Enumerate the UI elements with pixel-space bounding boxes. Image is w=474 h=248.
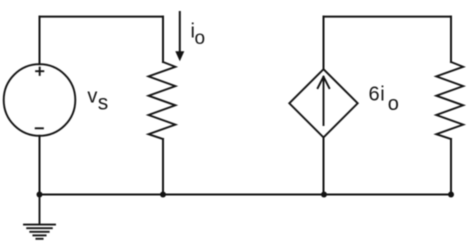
resistor R1 (left) (149, 62, 176, 139)
wire diamond branch top (323, 17, 325, 70)
current arrow io (179, 12, 181, 52)
ground (24, 195, 55, 239)
wire resistor R2 bottom to rail (450, 139, 452, 195)
node B junction dot (160, 192, 166, 198)
svg-text:o: o (388, 93, 399, 115)
resistor R2 (right) (436, 62, 463, 139)
svg-text:o: o (195, 28, 206, 49)
wire bottom rail (40, 194, 452, 196)
svg-text:6: 6 (369, 84, 380, 106)
dependent current source 6io (289, 69, 357, 137)
node C junction dot (321, 192, 327, 198)
wire top rail right loop (324, 16, 452, 18)
wire source bottom to rail (39, 136, 41, 195)
svg-text:s: s (98, 92, 109, 115)
node D junction dot (448, 192, 454, 198)
wire left loop right branch top (162, 17, 164, 62)
node A junction dot (37, 192, 43, 198)
wire resistor R1 bottom to rail (162, 139, 164, 195)
arrow inside diamond (323, 77, 325, 125)
svg-text:v: v (87, 86, 97, 108)
wire diamond bottom to rail (323, 137, 325, 194)
wire right branch top (450, 17, 452, 62)
voltage source vs U1 (4, 64, 76, 136)
wire top rail left loop (40, 16, 164, 18)
minus sign (36, 127, 43, 129)
plus sign (36, 68, 43, 75)
svg-text:i: i (380, 84, 384, 106)
wire left branch top (source to rail) (39, 17, 41, 65)
